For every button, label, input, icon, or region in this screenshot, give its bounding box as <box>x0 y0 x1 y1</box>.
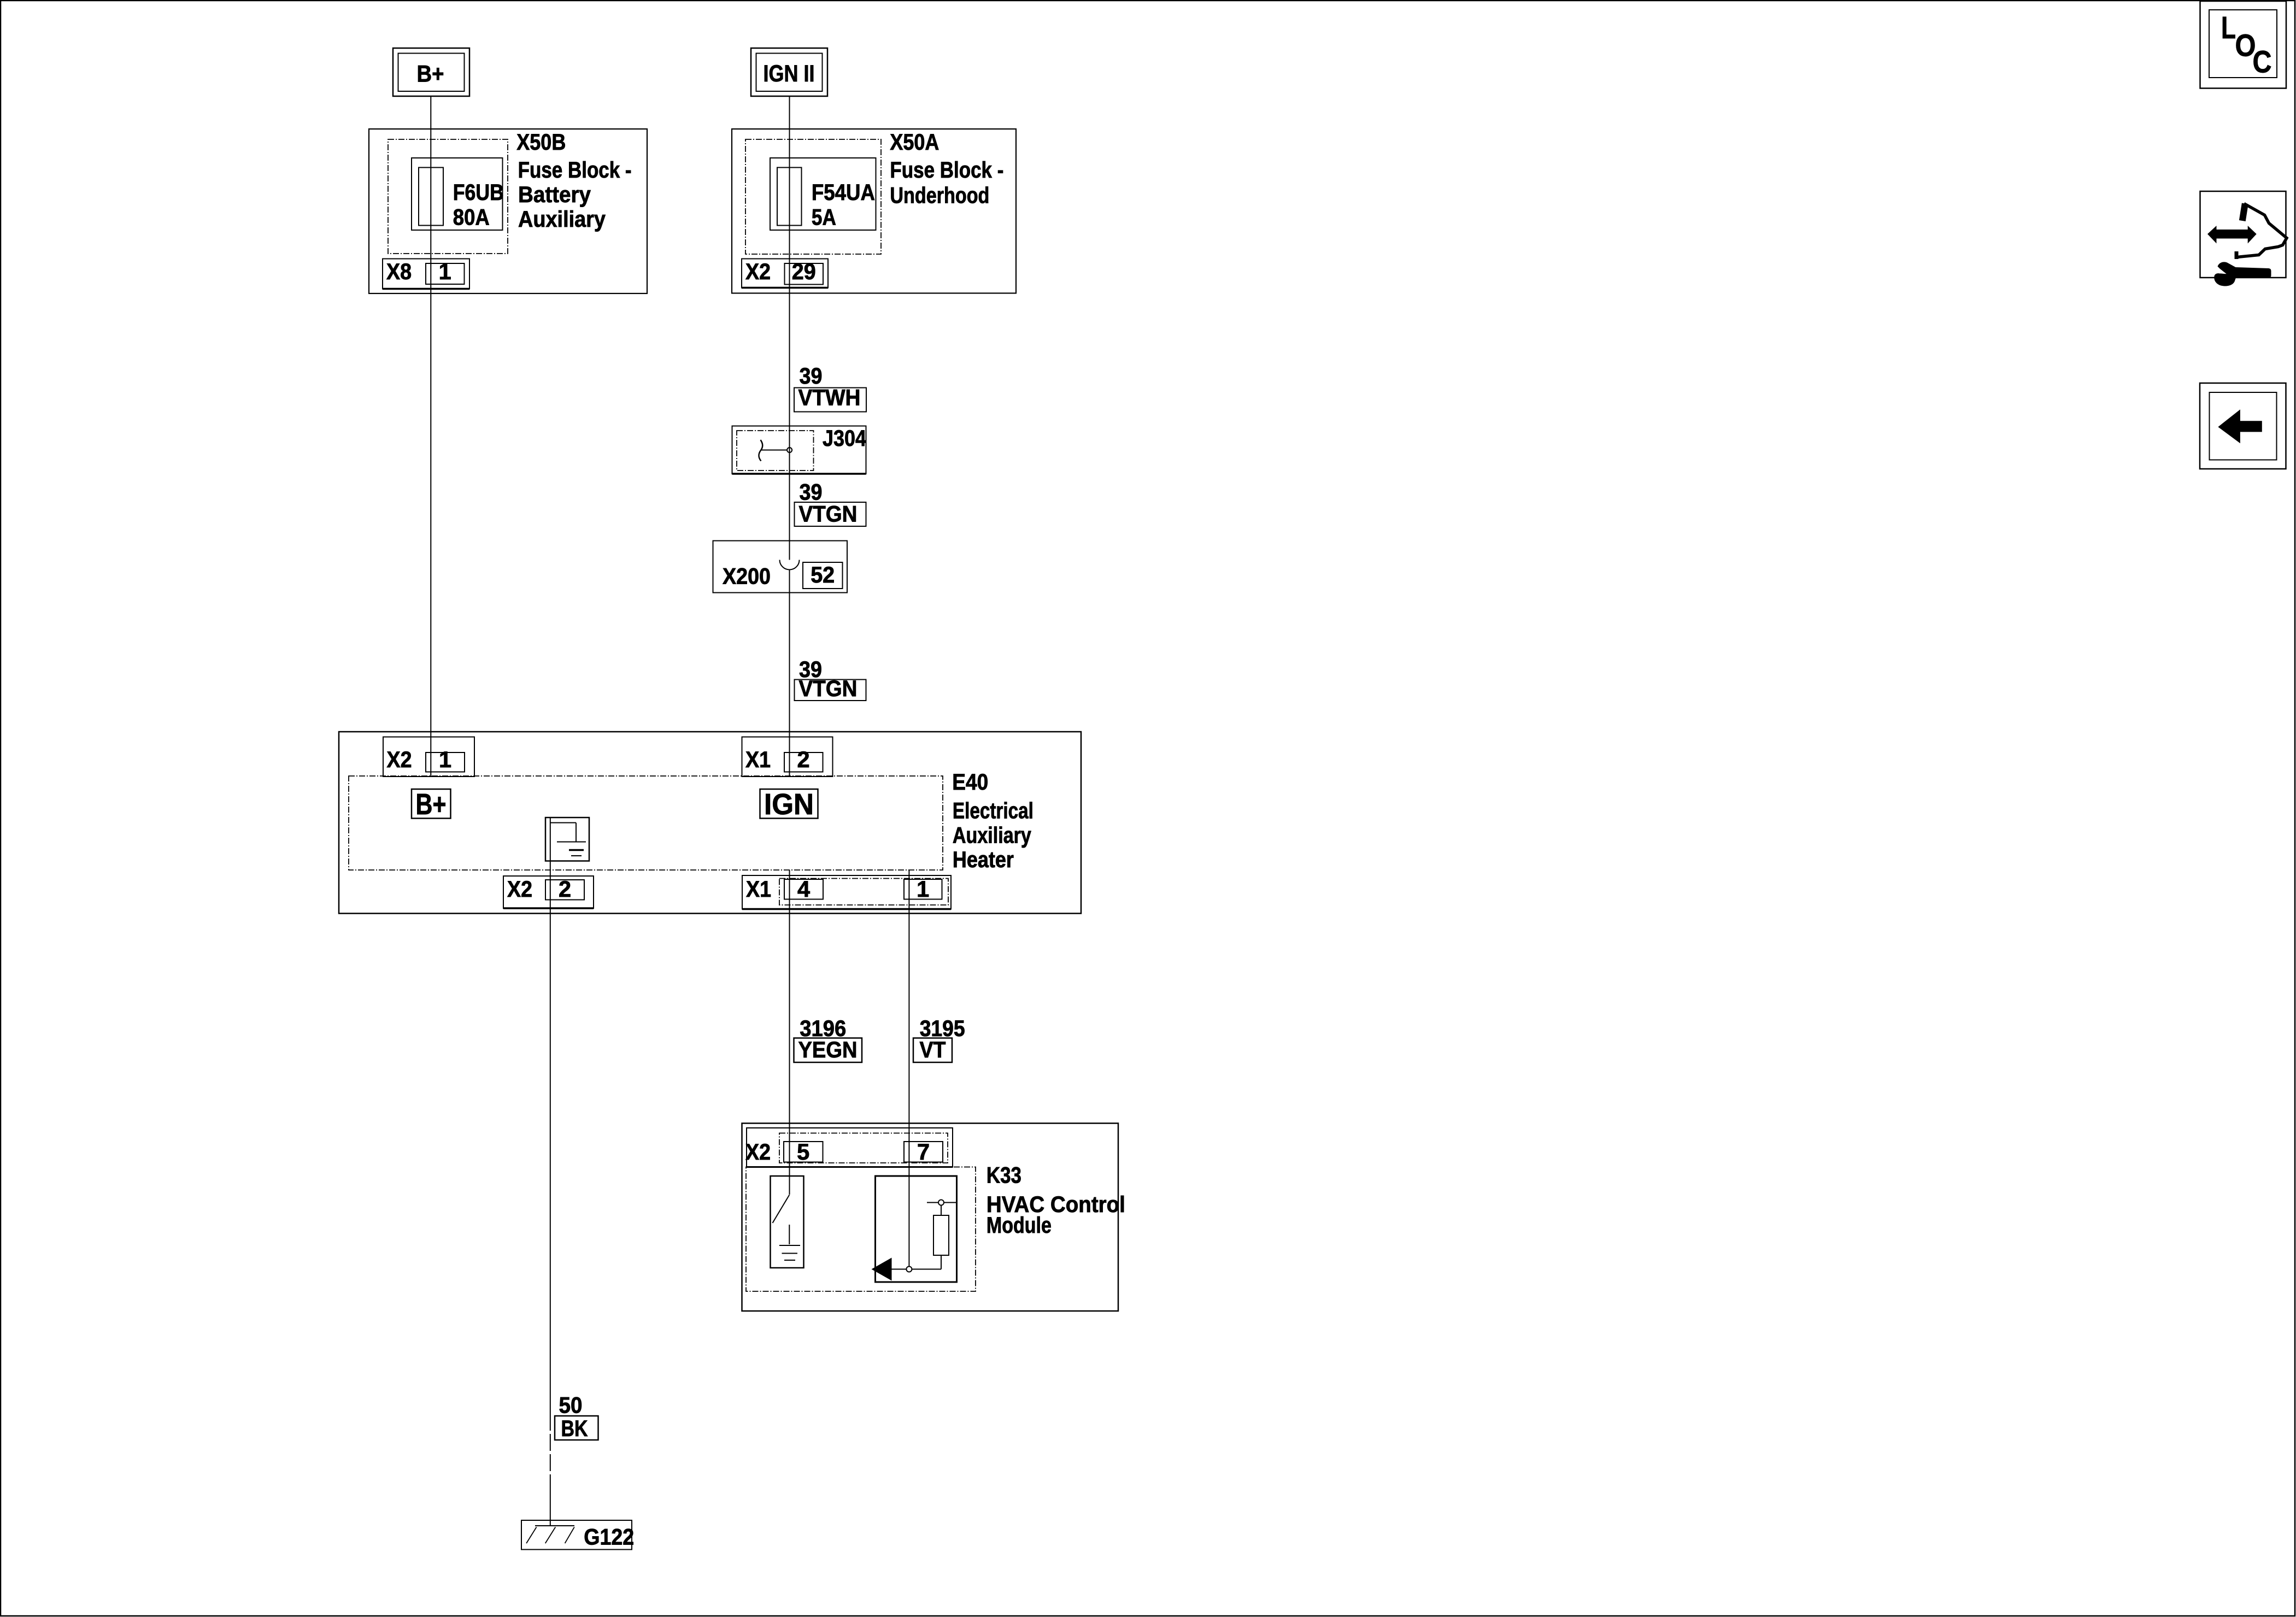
svg-text:X1: X1 <box>746 876 771 902</box>
svg-text:G122: G122 <box>584 1524 634 1550</box>
svg-text:B+: B+ <box>417 61 444 87</box>
svg-text:L: L <box>2221 10 2236 45</box>
svg-text:IGN II: IGN II <box>764 61 815 87</box>
svg-text:1: 1 <box>439 258 451 284</box>
svg-text:Electrical: Electrical <box>953 798 1034 824</box>
svg-text:VTGN: VTGN <box>799 501 858 527</box>
svg-text:X2: X2 <box>387 746 412 772</box>
svg-text:X2: X2 <box>745 1139 771 1165</box>
svg-text:7: 7 <box>917 1139 930 1165</box>
svg-text:52: 52 <box>811 562 835 587</box>
svg-text:1: 1 <box>917 876 929 902</box>
svg-text:Fuse Block -: Fuse Block - <box>518 157 632 183</box>
svg-text:Module: Module <box>986 1212 1052 1238</box>
svg-text:BK: BK <box>561 1415 588 1441</box>
svg-text:X2: X2 <box>745 258 771 284</box>
svg-text:VT: VT <box>920 1037 946 1062</box>
svg-text:5: 5 <box>797 1139 809 1165</box>
svg-text:Underhood: Underhood <box>890 183 989 208</box>
svg-text:Fuse Block -: Fuse Block - <box>890 157 1003 183</box>
svg-text:X1: X1 <box>745 746 771 772</box>
svg-text:X8: X8 <box>386 258 412 284</box>
svg-text:X50B: X50B <box>516 129 566 155</box>
svg-text:Auxiliary: Auxiliary <box>518 206 606 232</box>
svg-text:2: 2 <box>797 746 809 772</box>
svg-text:K33: K33 <box>986 1162 1021 1188</box>
svg-text:5A: 5A <box>812 204 836 230</box>
svg-text:50: 50 <box>559 1392 583 1418</box>
svg-text:J304: J304 <box>823 425 866 451</box>
svg-text:Battery: Battery <box>518 181 591 207</box>
svg-text:80A: 80A <box>453 204 490 230</box>
svg-text:Heater: Heater <box>953 846 1014 872</box>
svg-text:VTWH: VTWH <box>798 385 861 410</box>
svg-text:Auxiliary: Auxiliary <box>953 822 1031 848</box>
svg-text:X2: X2 <box>507 876 532 902</box>
svg-text:1: 1 <box>439 746 451 772</box>
svg-text:F54UA: F54UA <box>812 179 875 205</box>
svg-text:29: 29 <box>792 258 816 284</box>
svg-text:C: C <box>2253 45 2272 80</box>
svg-text:X50A: X50A <box>890 129 939 155</box>
svg-text:IGN: IGN <box>764 788 814 821</box>
svg-text:X200: X200 <box>723 563 771 589</box>
svg-text:YEGN: YEGN <box>798 1037 858 1062</box>
svg-text:4: 4 <box>797 876 810 902</box>
svg-text:E40: E40 <box>952 769 988 795</box>
svg-text:B+: B+ <box>416 788 447 821</box>
svg-text:F6UB: F6UB <box>453 179 504 205</box>
svg-text:VTGN: VTGN <box>799 675 858 701</box>
svg-text:2: 2 <box>559 876 571 902</box>
